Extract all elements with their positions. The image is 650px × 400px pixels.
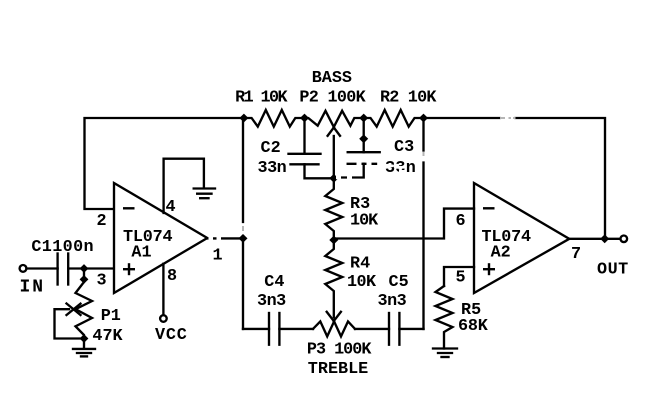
svg-text:C2: C2: [261, 139, 281, 158]
wiper arrow into P3: [327, 312, 334, 321]
wire C3 bottom to wiper node: [334, 164, 364, 178]
svg-text:P2 100K: P2 100K: [299, 89, 366, 108]
wire C3 top tap: [363, 118, 365, 152]
svg-text:R2 10K: R2 10K: [380, 89, 437, 108]
capacitor C3 33n: [348, 151, 380, 153]
node A1 output junction: [239, 234, 248, 243]
wire C4 to P3: [279, 328, 313, 330]
terminal IN circle: [20, 265, 27, 272]
wire output column A1 (top node down to treble row): [242, 118, 244, 222]
ground (R5): [433, 347, 457, 349]
svg-text:VCC: VCC: [155, 326, 188, 345]
svg-text:R4: R4: [350, 255, 370, 274]
wire P1 bottom to ground: [83, 339, 85, 349]
wire P3 to C5: [355, 328, 389, 330]
wire right column (R2 node down to C5): [422, 118, 424, 151]
potentiometer P2 wiper arrow: [333, 136, 335, 178]
wire A2 pin5 to R5: [444, 267, 474, 286]
node C3 wire dot: [359, 134, 368, 143]
wire top feedback A1 (pin2 to R1 left node): [85, 118, 244, 209]
svg-text:4: 4: [166, 198, 176, 217]
terminal OUT circle: [621, 236, 628, 243]
wire C5 to right column: [399, 328, 423, 330]
svg-text:3n3: 3n3: [378, 292, 407, 311]
svg-text:C4: C4: [264, 273, 284, 292]
svg-text:6: 6: [456, 212, 466, 231]
resistor R3 10K: [325, 178, 342, 240]
node wiper/C2/C3/R3 junction: [329, 174, 338, 183]
artifact gray dash on right column: [423, 152, 425, 156]
svg-text:2: 2: [97, 212, 107, 231]
svg-text:1: 1: [213, 247, 223, 266]
svg-text:8: 8: [167, 267, 177, 286]
resistor R4 10K: [325, 240, 342, 318]
svg-text:A2: A2: [491, 244, 511, 263]
node R2 right junction: [419, 114, 428, 123]
op-amp U1 A1 triangle: [114, 183, 207, 293]
svg-text:TREBLE: TREBLE: [308, 360, 368, 379]
wire A1 apex to output node: [208, 237, 244, 239]
wire P1 wiper: [55, 309, 85, 338]
ground (A1 pin4): [194, 187, 215, 189]
svg-text:33n: 33n: [258, 159, 287, 178]
svg-text:7: 7: [571, 245, 581, 264]
node top-left junction: [239, 114, 248, 123]
svg-text:C3: C3: [394, 138, 414, 157]
white dash artifacts: [209, 162, 372, 240]
artifact gray dash on output column: [242, 226, 244, 231]
op-amp U2 A2 triangle: [474, 183, 569, 293]
svg-text:10K: 10K: [347, 273, 377, 292]
node P2/R2 junction: [359, 114, 368, 123]
node C1/pin3/P1 junction: [80, 264, 89, 273]
svg-text:BASS: BASS: [312, 69, 352, 88]
plus A2: [483, 268, 495, 270]
plus A1: [123, 268, 135, 270]
svg-text:47K: 47K: [92, 327, 123, 346]
capacitor C5 3n3: [388, 313, 390, 345]
capacitor C2 33n: [289, 153, 321, 155]
artifact gray dashes on top wire: [500, 117, 505, 119]
ground (P1): [73, 348, 95, 350]
svg-text:68K: 68K: [458, 317, 489, 336]
node P1 bottom: [80, 334, 89, 343]
svg-text:A1: A1: [131, 244, 151, 263]
svg-text:IN: IN: [20, 278, 46, 298]
wire IN to C1: [27, 267, 58, 269]
node A2 output junction: [600, 234, 609, 243]
wire treble row left (output column to C4): [243, 328, 269, 330]
minus A1: [123, 207, 135, 209]
svg-text:P1: P1: [101, 307, 121, 326]
capacitor C1 100n: [56, 254, 58, 285]
wire A2 apex to OUT: [570, 238, 621, 240]
svg-text:3: 3: [97, 272, 107, 291]
resistor R1 10K: [244, 110, 305, 127]
svg-text:C5: C5: [389, 273, 409, 292]
potentiometer P1 47K body: [76, 281, 93, 339]
potentiometer P2 100K body: [305, 111, 364, 127]
svg-text:P3 100K: P3 100K: [307, 340, 372, 359]
P1 wiper arrowhead: [67, 304, 81, 316]
svg-text:5: 5: [456, 269, 466, 288]
minus A2: [483, 207, 495, 209]
terminal VCC circle: [160, 315, 167, 322]
resistor R2 10K: [364, 110, 424, 127]
wire A1 pin8 to VCC: [162, 264, 164, 314]
wire A2 feedback top (R2 right node to output node): [424, 117, 500, 119]
node R1/P2 junction: [300, 114, 309, 123]
capacitor C4 3n3: [268, 313, 270, 345]
node R3/R4 junction: [329, 236, 338, 245]
wire C2 bottom to wiper node: [305, 164, 334, 178]
svg-text:OUT: OUT: [597, 261, 629, 280]
potentiometer P3 100K body: [313, 321, 355, 336]
svg-text:10K: 10K: [350, 212, 379, 231]
svg-text:C1100n: C1100n: [31, 238, 94, 257]
resistor R5 68K: [436, 286, 453, 349]
wire C1 to A1 pin3: [68, 267, 113, 269]
svg-text:R1 10K: R1 10K: [235, 89, 288, 108]
svg-text:3n3: 3n3: [257, 292, 286, 311]
wire P1 top branch: [83, 269, 85, 282]
wire C2 top tap: [303, 118, 305, 154]
wire A1 pin4 to ground: [164, 159, 204, 213]
node P1 top: [80, 275, 89, 284]
wire R3/R4 junction to A2 pin6: [334, 209, 474, 239]
